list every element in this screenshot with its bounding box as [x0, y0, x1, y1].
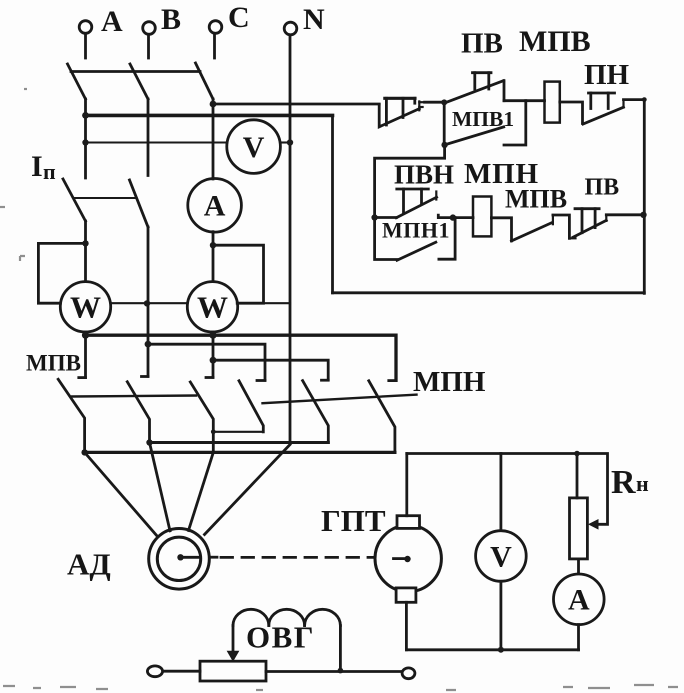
- svg-text:МПВ: МПВ: [505, 185, 567, 214]
- svg-text:В: В: [161, 3, 181, 36]
- svg-text:V: V: [243, 131, 265, 164]
- svg-text:ПН: ПН: [584, 59, 630, 91]
- svg-text:МПН1: МПН1: [382, 218, 450, 243]
- svg-text:ПВН: ПВН: [394, 160, 454, 190]
- svg-text:АД: АД: [67, 547, 111, 582]
- svg-text:ОВГ: ОВГ: [246, 620, 315, 655]
- svg-text:А: А: [101, 5, 123, 38]
- svg-text:МПВ: МПВ: [26, 351, 81, 376]
- svg-text:R: R: [611, 464, 636, 501]
- svg-text:МПН: МПН: [413, 366, 486, 398]
- svg-text:МПВ: МПВ: [519, 25, 591, 58]
- svg-text:С: С: [228, 1, 250, 34]
- svg-text:А: А: [204, 190, 226, 223]
- svg-text:I: I: [31, 150, 43, 183]
- svg-text:W: W: [70, 290, 101, 325]
- svg-text:МПВ1: МПВ1: [452, 107, 514, 131]
- svg-text:N: N: [303, 3, 325, 36]
- svg-text:п: п: [43, 159, 56, 184]
- svg-text:ПВ: ПВ: [585, 175, 620, 201]
- svg-text:н: н: [636, 471, 649, 496]
- svg-text:ПВ: ПВ: [461, 28, 503, 60]
- svg-text:А: А: [568, 584, 590, 617]
- svg-text:ГПТ: ГПТ: [321, 503, 386, 538]
- svg-text:W: W: [197, 290, 228, 325]
- svg-text:V: V: [490, 540, 512, 573]
